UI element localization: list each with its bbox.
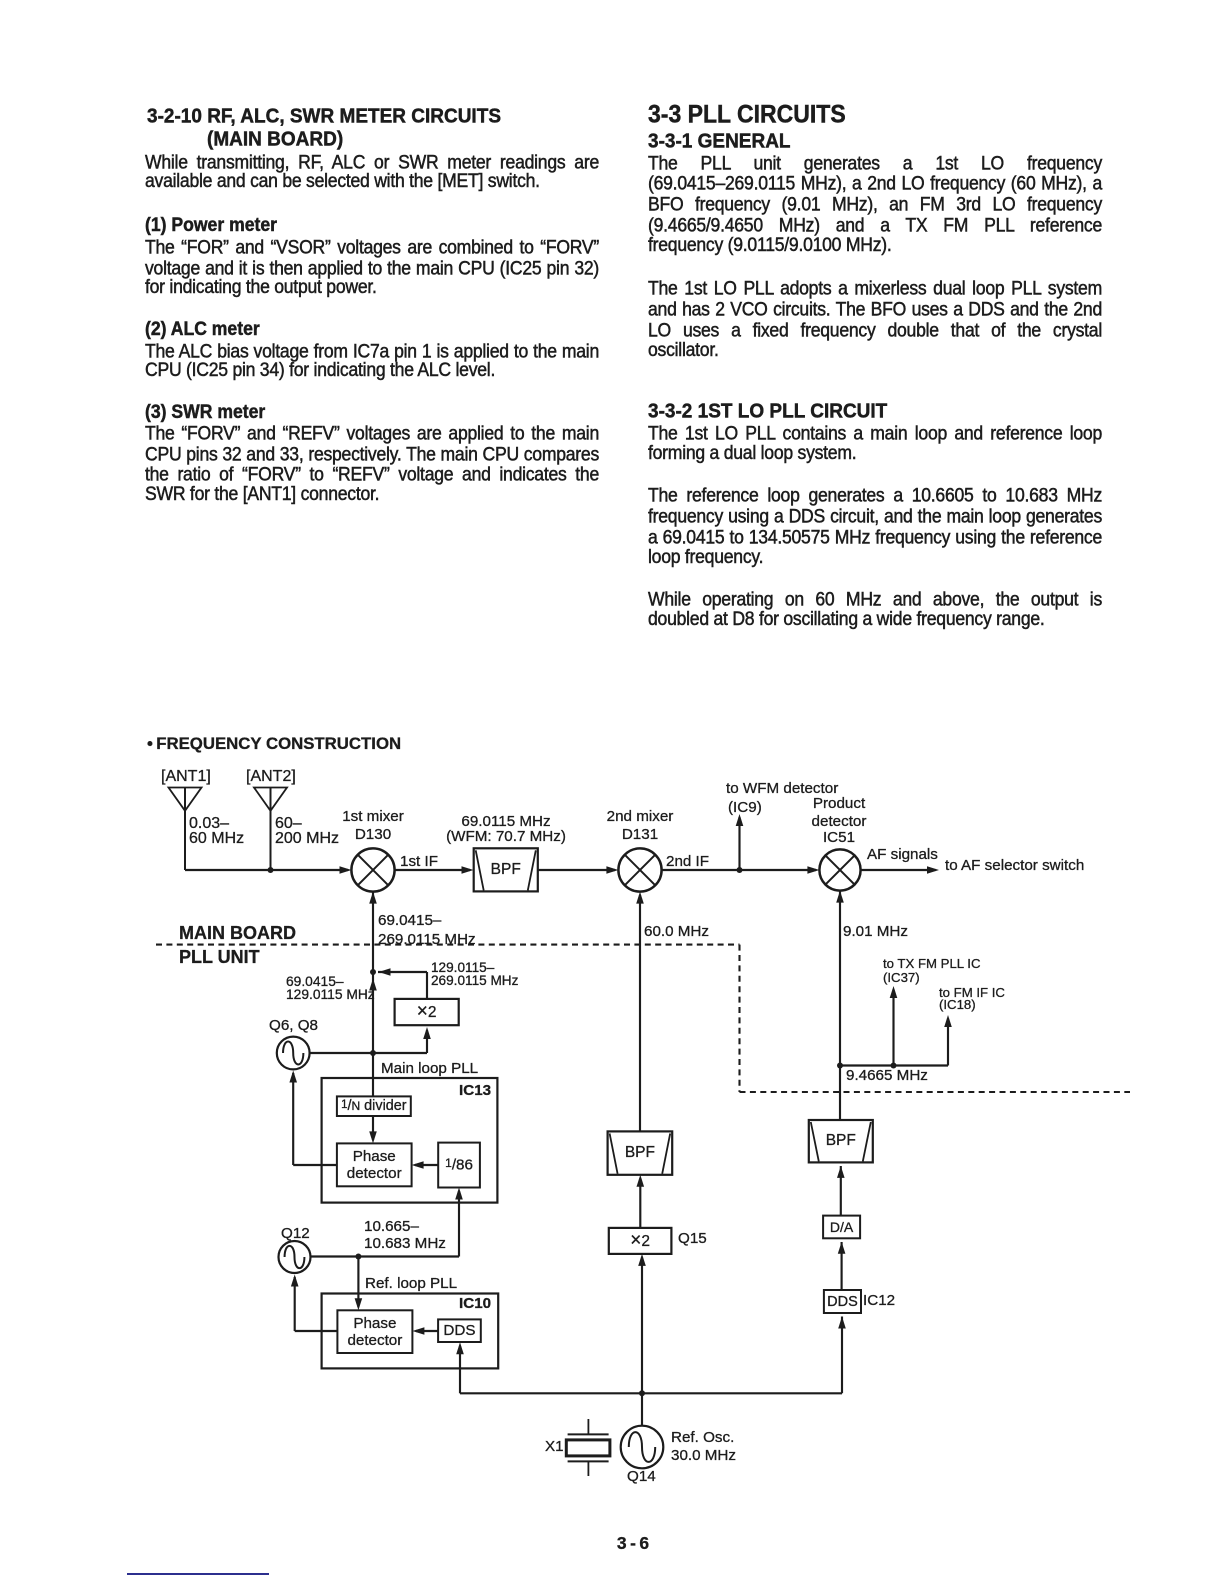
box text D/A [823, 1216, 860, 1239]
mixer D131 (2nd mixer) [618, 848, 661, 891]
wire 1/86 to phase detector [415, 1164, 438, 1166]
label 9.4665 MHz [846, 1068, 928, 1083]
wire to TX FM PLL IC [892, 990, 894, 1066]
antenna ANT2 [254, 788, 287, 871]
label MAIN BOARD [179, 924, 296, 942]
box text BPF 60 MHz [608, 1131, 673, 1174]
DDS box IC12 [824, 1290, 861, 1313]
label PLL UNIT [179, 948, 260, 966]
wire to FM IF IC [947, 1019, 949, 1066]
junction to IC37 [891, 1063, 897, 1069]
label 69.0415-129.0115 MHz [286, 975, 344, 989]
right column: section 3-3 text [648, 102, 1102, 127]
doubler x2 Q15 [609, 1228, 672, 1254]
label IC10 [459, 1296, 491, 1311]
box text x2 (main loop) [395, 999, 459, 1025]
label AF signals [867, 847, 938, 862]
wire up to x2 Q15 [641, 1258, 643, 1394]
label 10.665-10.683 MHz [364, 1219, 419, 1234]
feedback wire up to VCO [292, 1073, 294, 1165]
wire x2 output to junction [378, 971, 427, 973]
left column: section 3-2-10 text [147, 106, 601, 127]
label 2nd IF [666, 854, 709, 869]
wire 9.01 MHz BPF to product detector [839, 891, 841, 1121]
wire divider to phase detector [372, 1116, 374, 1140]
D/A box [823, 1216, 860, 1239]
phase detector box (IC10) [337, 1310, 412, 1353]
label IC13 [459, 1083, 491, 1098]
BPF 60 MHz [608, 1131, 673, 1174]
junction 9.4665 MHz [837, 1063, 843, 1069]
wire 2nd mixer to product detector (2nd IF) [662, 869, 816, 871]
1/86 divider box [438, 1143, 480, 1188]
wire D/A to BPF [840, 1166, 842, 1216]
label Product detector IC51 [813, 796, 865, 811]
wire ref osc to bus [641, 1393, 643, 1425]
wire DDS to phase detector [416, 1330, 438, 1332]
label ANT2 [246, 769, 296, 785]
label 1st IF [400, 854, 438, 869]
wire antennas to 1st mixer [185, 869, 348, 871]
mixer D130 (1st mixer) [351, 848, 394, 891]
dashed boundary right [740, 1091, 1131, 1093]
oscillator Q12 (ref VCO) [279, 1241, 311, 1273]
junction to WFM detector [737, 867, 743, 873]
junction ref loop [355, 1254, 361, 1260]
box text phase detector IC10 [337, 1310, 412, 1353]
label 2nd mixer D131 [607, 809, 674, 824]
box text DDS IC12 [824, 1290, 861, 1313]
box text phase detector IC13 [337, 1143, 412, 1186]
wire 9.4665 MHz branch [840, 1064, 948, 1066]
diagram heading [147, 736, 401, 753]
wire BPF to 2nd mixer [538, 869, 615, 871]
oscillator Q14 (ref osc 30 MHz) [621, 1426, 664, 1469]
label 69.0115 MHz / WFM [461, 814, 550, 829]
wire 30 MHz to DDS IC12 [841, 1317, 843, 1394]
junction x2 output [370, 969, 376, 975]
dashed boundary vertical [738, 945, 740, 1092]
wire x2 to BPF 60MHz [639, 1178, 641, 1228]
flow arrow on 1st LO wire [369, 979, 377, 991]
label X1 [545, 1439, 564, 1454]
wire ref loop to 1/86 [458, 1191, 460, 1257]
label 0.03-60 MHz [189, 816, 229, 832]
wire down to ref phase detector [357, 1257, 359, 1308]
label 9.01 MHz [843, 924, 908, 939]
wire VCO Q6/Q8 output [310, 1052, 427, 1054]
wire Q12 output [311, 1255, 460, 1257]
IC13 main loop PLL box [322, 1078, 498, 1203]
wire into x2 bottom [426, 1030, 428, 1053]
BPF 69.0115 MHz [474, 848, 538, 891]
label Q6, Q8 [269, 1018, 318, 1033]
label to AF selector switch [945, 858, 1084, 873]
label Main loop PLL [381, 1061, 478, 1076]
wire x2 top [426, 972, 428, 999]
page number [617, 1535, 649, 1553]
wire 30 MHz bus [460, 1392, 842, 1394]
wire 60 MHz to 2nd mixer [639, 895, 641, 1131]
feedback wire phase detector to VCO [293, 1164, 337, 1166]
1/N divider box [337, 1096, 411, 1116]
wire 30 MHz to DDS (IC10) [459, 1346, 461, 1394]
junction VCO output [370, 1050, 376, 1056]
oscillator Q6, Q8 (VCO) [277, 1037, 310, 1070]
wire 1st LO into mixer / down to divider [372, 892, 374, 1096]
label Q14 [627, 1469, 656, 1484]
junction 30 MHz bus [639, 1390, 645, 1396]
label to FM IF IC (IC18) [939, 986, 1005, 999]
blue pen line bottom left [127, 1573, 269, 1576]
box text BPF 9.01 MHz [809, 1120, 873, 1162]
label 60-200 MHz [275, 816, 302, 832]
doubler x2 (main loop) [395, 999, 459, 1025]
mixer IC51 (product detector) [819, 849, 860, 890]
arrow into 1st mixer [340, 866, 352, 874]
BPF 9.01 MHz [809, 1120, 873, 1162]
box text BPF 69 MHz [474, 848, 538, 891]
label 69.0415-269.0115 MHz [378, 913, 441, 928]
wire AF signals out [861, 869, 936, 871]
feedback wire up to Q12 [294, 1277, 296, 1331]
antenna ANT1 [169, 788, 202, 871]
box text DDS IC10 [438, 1319, 481, 1342]
label Ref. loop PLL [365, 1276, 457, 1291]
label to WFM detector (IC9) [726, 781, 838, 796]
crystal X1 [566, 1419, 610, 1476]
wire 1st mixer to BPF (1st IF) [395, 869, 470, 871]
wire DDS IC12 to D/A [841, 1242, 843, 1290]
label Q12 [281, 1226, 310, 1241]
label ANT1 [161, 769, 211, 785]
label Q15 [678, 1231, 707, 1246]
label to TX FM PLL IC (IC37) [883, 957, 980, 970]
label 1st mixer D130 [342, 809, 404, 824]
dashed boundary MAIN BOARD / PLL UNIT (left) [156, 944, 740, 946]
DDS box (IC10) [438, 1319, 481, 1342]
arrow into product detector [807, 866, 819, 874]
label 129.0115-269.0115 MHz [431, 961, 494, 975]
wire up to WFM detector [738, 817, 740, 870]
label IC12 [863, 1293, 895, 1308]
IC10 ref loop PLL box [322, 1294, 499, 1369]
feedback wire to Q12 [295, 1330, 338, 1332]
junction ANT2 / antenna bus [268, 867, 274, 873]
box text 1/86 [438, 1143, 480, 1188]
label 60.0 MHz [644, 924, 709, 939]
phase detector box (IC13) [337, 1143, 412, 1186]
label Ref. Osc. 30.0 MHz [671, 1430, 734, 1445]
box text 1/N divider [337, 1096, 411, 1116]
box text x2 Q15 [609, 1228, 672, 1254]
